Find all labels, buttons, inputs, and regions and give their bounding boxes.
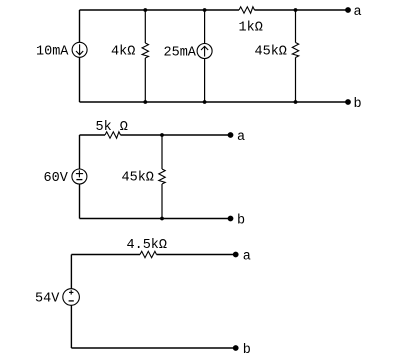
- wire top-right segment to terminal a (middle circuit): [121, 134, 231, 136]
- svg-text:a: a: [243, 249, 251, 264]
- svg-text:4.5kΩ: 4.5kΩ: [127, 238, 168, 253]
- junction dot 45k bottom: [294, 100, 298, 104]
- svg-text:54V: 54V: [35, 292, 60, 307]
- voltage source V1 60V (circle with plus/minus): [72, 169, 87, 184]
- resistor R 4kΩ (vertical zigzag): [142, 43, 148, 58]
- resistor R 4.5kΩ (horizontal zigzag): [140, 251, 157, 257]
- wire top-right segment to terminal a: [255, 9, 349, 11]
- wire 25mA branch vertical: [204, 10, 206, 102]
- wire 45k branch vertical upper (middle circuit): [161, 135, 163, 169]
- wire top-left segment (bottom circuit, y=254.5): [71, 254, 140, 256]
- svg-text:60V: 60V: [44, 171, 69, 186]
- svg-text:5k Ω: 5k Ω: [96, 120, 128, 135]
- wire top-left segment (top circuit, y=10): [80, 9, 240, 11]
- junction dot 25mA bottom: [203, 100, 207, 104]
- svg-text:a: a: [237, 130, 245, 145]
- terminal node a (bottom circuit): [233, 252, 239, 258]
- wire left vertical (top circuit, x=79.5): [79, 10, 81, 102]
- terminal node a (top circuit): [345, 7, 351, 13]
- wire left vertical (middle circuit): [79, 135, 81, 219]
- wire bottom (bottom circuit, y=348): [71, 347, 235, 349]
- wire 45k branch vertical upper (top circuit): [295, 10, 297, 43]
- wire bottom (top circuit, y=102): [80, 101, 349, 103]
- junction dot 45k top: [294, 8, 298, 12]
- svg-text:1kΩ: 1kΩ: [239, 21, 263, 36]
- junction dot 25mA top: [203, 8, 207, 12]
- wire 4k branch vertical upper: [144, 10, 146, 43]
- junction dot 4k top: [143, 8, 147, 12]
- terminal node a (middle circuit): [228, 132, 234, 138]
- voltage source V2 54V (circle with plus/minus): [63, 289, 80, 306]
- current source I1 10mA (circle with down arrow): [72, 42, 87, 57]
- svg-text:b: b: [237, 213, 245, 228]
- wire 4k branch vertical lower: [144, 58, 146, 102]
- resistor R 45kΩ (vertical zigzag, top circuit): [292, 43, 298, 58]
- wire left vertical (bottom circuit): [70, 255, 72, 349]
- wire 45k branch vertical lower (top circuit): [295, 58, 297, 103]
- wire 45k branch vertical lower (middle circuit): [161, 184, 163, 219]
- wire top-right segment to terminal a (bottom circuit): [157, 254, 236, 256]
- resistor R 45kΩ (vertical zigzag, middle circuit): [159, 169, 165, 184]
- svg-text:a: a: [354, 5, 362, 20]
- svg-text:b: b: [354, 97, 362, 112]
- svg-text:45kΩ: 45kΩ: [122, 171, 154, 186]
- svg-text:b: b: [243, 343, 251, 358]
- junction dot 45k bottom (middle): [160, 217, 164, 221]
- terminal node b (middle circuit): [228, 216, 234, 222]
- terminal node b (bottom circuit): [233, 345, 239, 351]
- svg-text:45kΩ: 45kΩ: [255, 45, 287, 60]
- svg-text:25mA: 25mA: [164, 46, 197, 61]
- resistor R 5kΩ (horizontal zigzag): [105, 132, 121, 138]
- wire bottom (middle circuit, y=218.5): [80, 218, 231, 220]
- junction dot 45k top (middle): [160, 133, 164, 137]
- resistor R 1kΩ (horizontal zigzag in top wire): [239, 7, 255, 13]
- svg-text:4kΩ: 4kΩ: [111, 45, 135, 60]
- junction dot 4k bottom: [143, 100, 147, 104]
- current source I2 25mA (circle with up arrow): [197, 44, 212, 59]
- svg-text:10mA: 10mA: [36, 45, 69, 60]
- wire top-left segment (middle circuit, y=135): [80, 134, 106, 136]
- terminal node b (top circuit): [345, 99, 351, 105]
